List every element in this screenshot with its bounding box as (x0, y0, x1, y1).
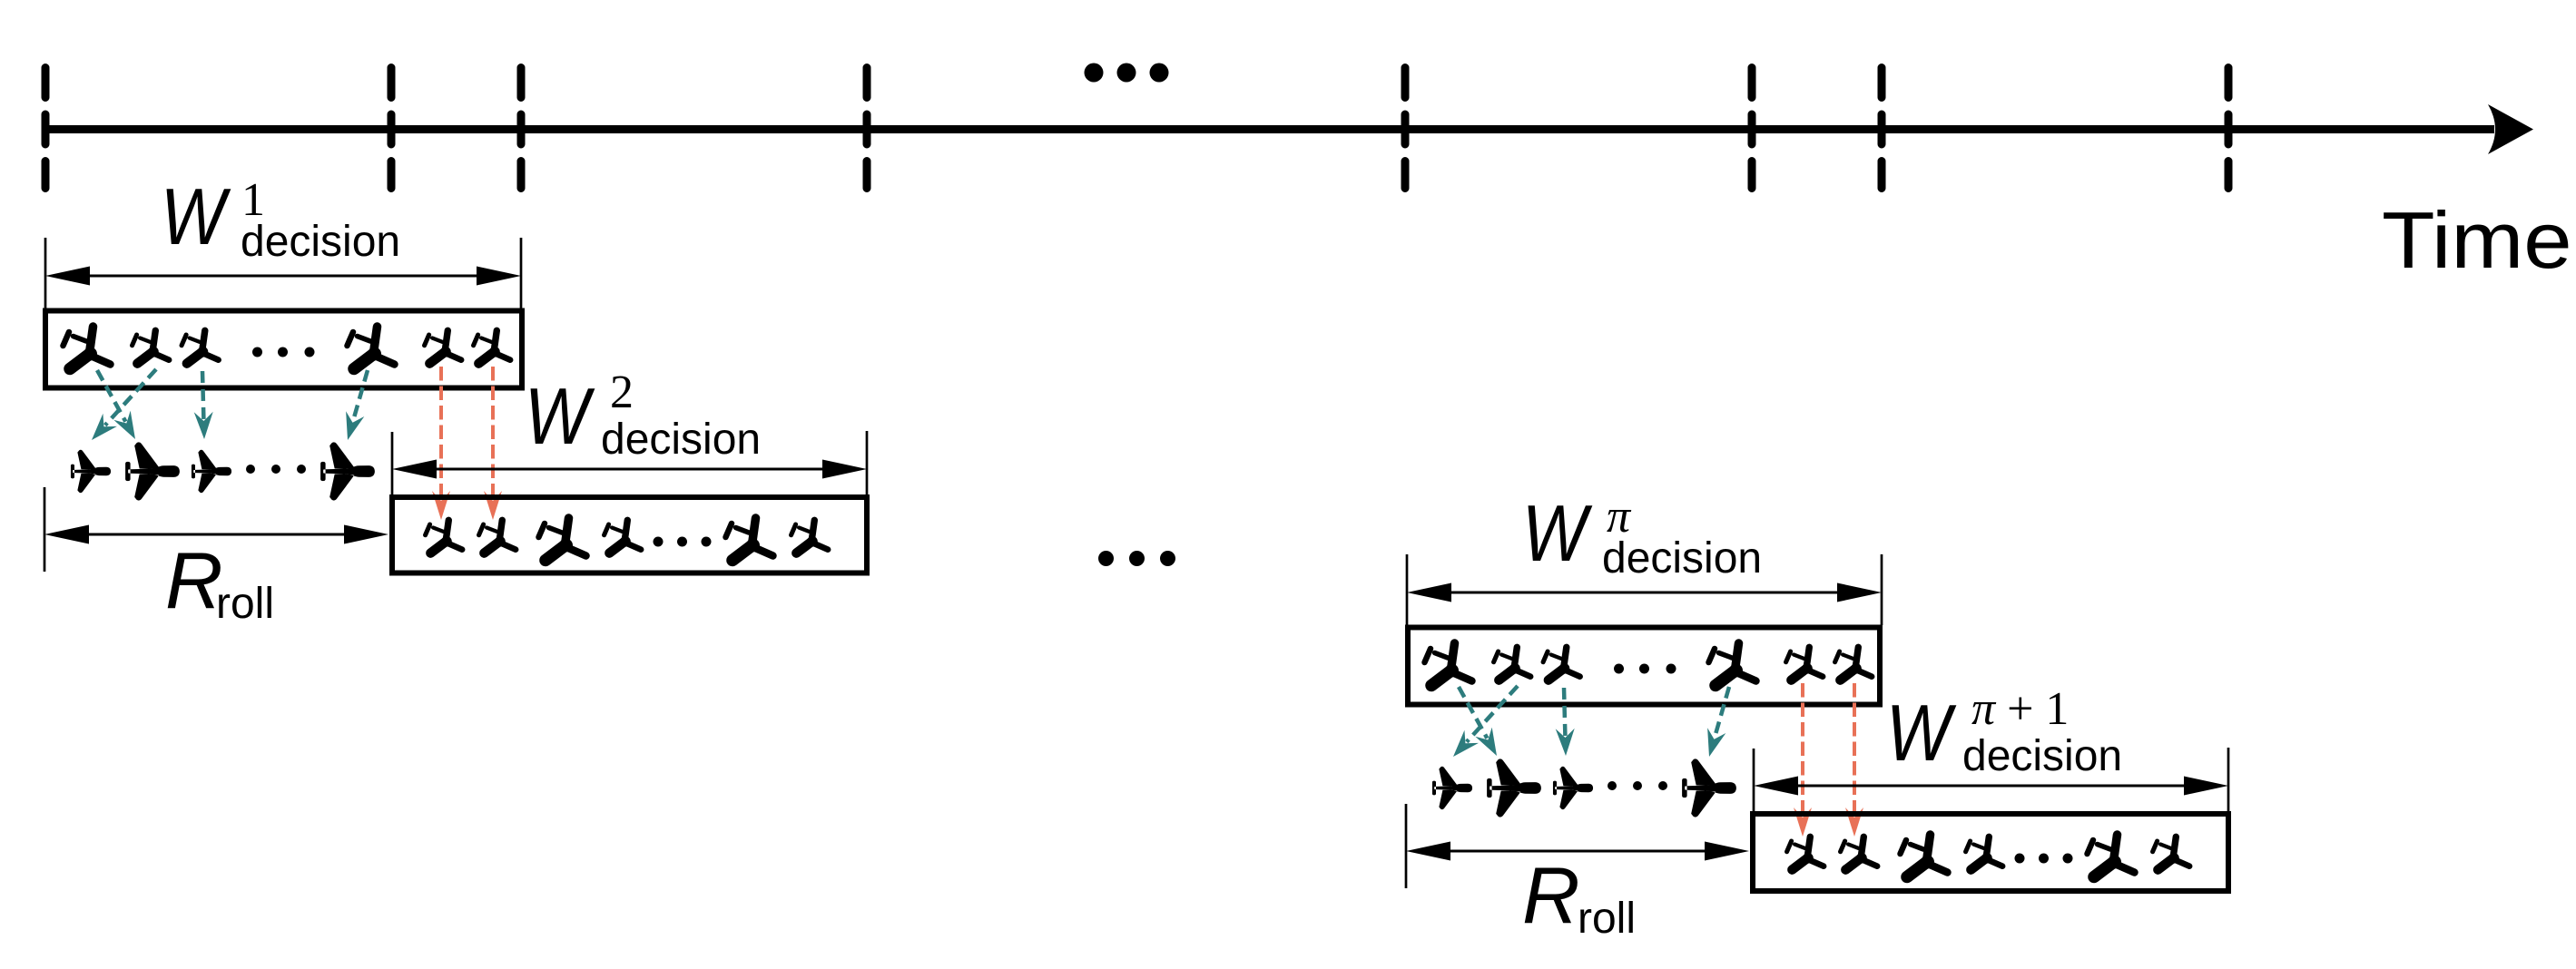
timeline ellipsis dots (1085, 64, 1169, 83)
plane small 5 in box W^1 (425, 330, 462, 363)
plane big 3 in box W^pi+1 (1901, 835, 1948, 877)
tick mark t1 (42, 68, 50, 189)
tick mark t6 (1748, 68, 1756, 189)
teal dashed arrow from plane 2 (84, 369, 156, 446)
dimension arrow R_roll (cluster 1) (44, 525, 388, 544)
plane small 2 in box W^pi+1 (1841, 837, 1878, 869)
extension line left of W^1 window (44, 238, 47, 308)
extension line left of W^2 window (391, 432, 394, 494)
middle ellipsis dots (1098, 551, 1175, 566)
svg-text:R: R (1522, 850, 1580, 940)
svg-text:W: W (1886, 690, 1956, 778)
plane big 4 in box W^pi (1709, 643, 1756, 686)
box W^2 decision window (392, 497, 867, 573)
plane small 4 in box W^pi+1 (1966, 837, 2003, 869)
ellipsis dots in box W^1 (252, 347, 315, 357)
plane small 1 in box W^pi+1 (1787, 837, 1824, 869)
dimension arrow W^1_decision (45, 267, 521, 286)
svg-text:decision: decision (241, 218, 400, 266)
scheduled plane small 1 (row 2) (1432, 767, 1472, 809)
dimension arrow W^2_decision (392, 460, 867, 479)
plane big 5 in box W^pi+1 (2088, 835, 2135, 877)
plane small 2 in box W^1 (133, 330, 170, 363)
box W^1 decision window (45, 311, 522, 388)
extension line right of W^pi window (1881, 554, 1883, 625)
svg-text:π + 1: π + 1 (1971, 683, 2069, 735)
plane big 1 in box W^pi (1425, 643, 1472, 686)
extension line right of W^1 window (520, 238, 523, 308)
timeline axis (42, 104, 2533, 154)
teal dashed arrow from plane 2 (cluster 2) (1446, 686, 1518, 763)
plane big 3 in box W^2 (539, 518, 586, 561)
svg-text:2: 2 (610, 367, 634, 418)
svg-text:decision: decision (601, 416, 761, 464)
scheduled plane small 3 (row 2) (1553, 767, 1593, 809)
scheduled plane big 2 (row 1) (125, 442, 180, 500)
red dashed arrow carry-over 2 (484, 367, 502, 520)
tick mark t3 (517, 68, 526, 189)
dimension arrow W^pi_decision (1407, 583, 1882, 602)
scheduled plane big 4 (row 1) (320, 442, 375, 500)
scheduled plane big 2 (row 2) (1487, 759, 1541, 817)
plane small 5 in box W^pi (1786, 647, 1824, 680)
dimension arrow R_roll (cluster 2) (1406, 842, 1749, 861)
svg-text:roll: roll (216, 580, 274, 628)
teal dashed arrow from plane 4 (339, 370, 368, 443)
tick mark t2 (388, 68, 396, 189)
extension line left of R_roll (cluster 2) (1405, 804, 1408, 888)
extension line left of W^pi window (1406, 554, 1409, 625)
teal dashed arrow from plane 4 (cluster 2) (1700, 687, 1729, 759)
extension line left of W^pi+1 window (1753, 749, 1755, 811)
svg-text:decision: decision (1962, 732, 2122, 780)
ellipsis dots in box W^pi (1614, 664, 1676, 674)
svg-text:W: W (1522, 490, 1592, 579)
scheduled plane big 4 (row 2) (1682, 759, 1736, 817)
svg-text:W: W (525, 373, 595, 462)
ellipsis dots row 1 (246, 465, 306, 474)
teal dashed arrow from plane 3 (cluster 2) (1556, 688, 1576, 756)
ellipsis dots row 2 (1608, 781, 1667, 790)
box W^pi+1 decision window (1753, 814, 2228, 891)
extension line right of W^2 window (866, 431, 869, 494)
plane small 1 in box W^2 (426, 520, 463, 553)
extension line right of W^pi+1 window (2227, 748, 2230, 811)
dimension arrow W^pi+1_decision (1754, 777, 2228, 796)
svg-text:Time: Time (2382, 196, 2572, 285)
tick mark t8 (2225, 68, 2233, 189)
plane small 3 in box W^1 (182, 330, 219, 363)
tick mark t5 (1401, 68, 1410, 189)
extension line left of R_roll (cluster 1) (44, 487, 46, 572)
ellipsis dots in box W^2 (654, 537, 712, 547)
plane small 6 in box W^2 (791, 520, 829, 553)
scheduled plane small 1 (row 1) (71, 450, 111, 493)
plane small 4 in box W^2 (605, 520, 642, 553)
plane big 4 in box W^1 (348, 327, 395, 369)
plane small 6 in box W^pi+1 (2153, 837, 2190, 869)
plane small 6 in box W^1 (474, 330, 511, 363)
box W^pi decision window (1408, 628, 1880, 705)
plane big 1 in box W^1 (64, 327, 111, 369)
svg-text:decision: decision (1602, 534, 1762, 582)
teal dashed arrow from plane 3 (194, 371, 214, 439)
red dashed arrow carry-over 1 (cluster 2) (1794, 683, 1812, 837)
plane big 5 in box W^2 (726, 518, 773, 561)
plane small 2 in box W^pi (1494, 647, 1531, 680)
scheduled plane small 3 (row 1) (192, 450, 231, 493)
plane small 3 in box W^pi (1543, 647, 1580, 680)
teal dashed arrow from plane 1 (cluster 2) (1459, 687, 1505, 760)
ellipsis dots in box W^pi+1 (2015, 854, 2073, 864)
red dashed arrow carry-over 1 (432, 367, 450, 520)
svg-text:roll: roll (1578, 895, 1636, 943)
svg-text:W: W (161, 173, 231, 262)
teal dashed arrow from plane 1 (97, 370, 143, 444)
plane small 2 in box W^2 (479, 520, 516, 553)
tick mark t7 (1878, 68, 1886, 189)
plane small 6 in box W^pi (1835, 647, 1873, 680)
red dashed arrow carry-over 2 (cluster 2) (1845, 683, 1863, 837)
tick mark t4 (863, 68, 871, 189)
svg-text:R: R (165, 535, 223, 625)
